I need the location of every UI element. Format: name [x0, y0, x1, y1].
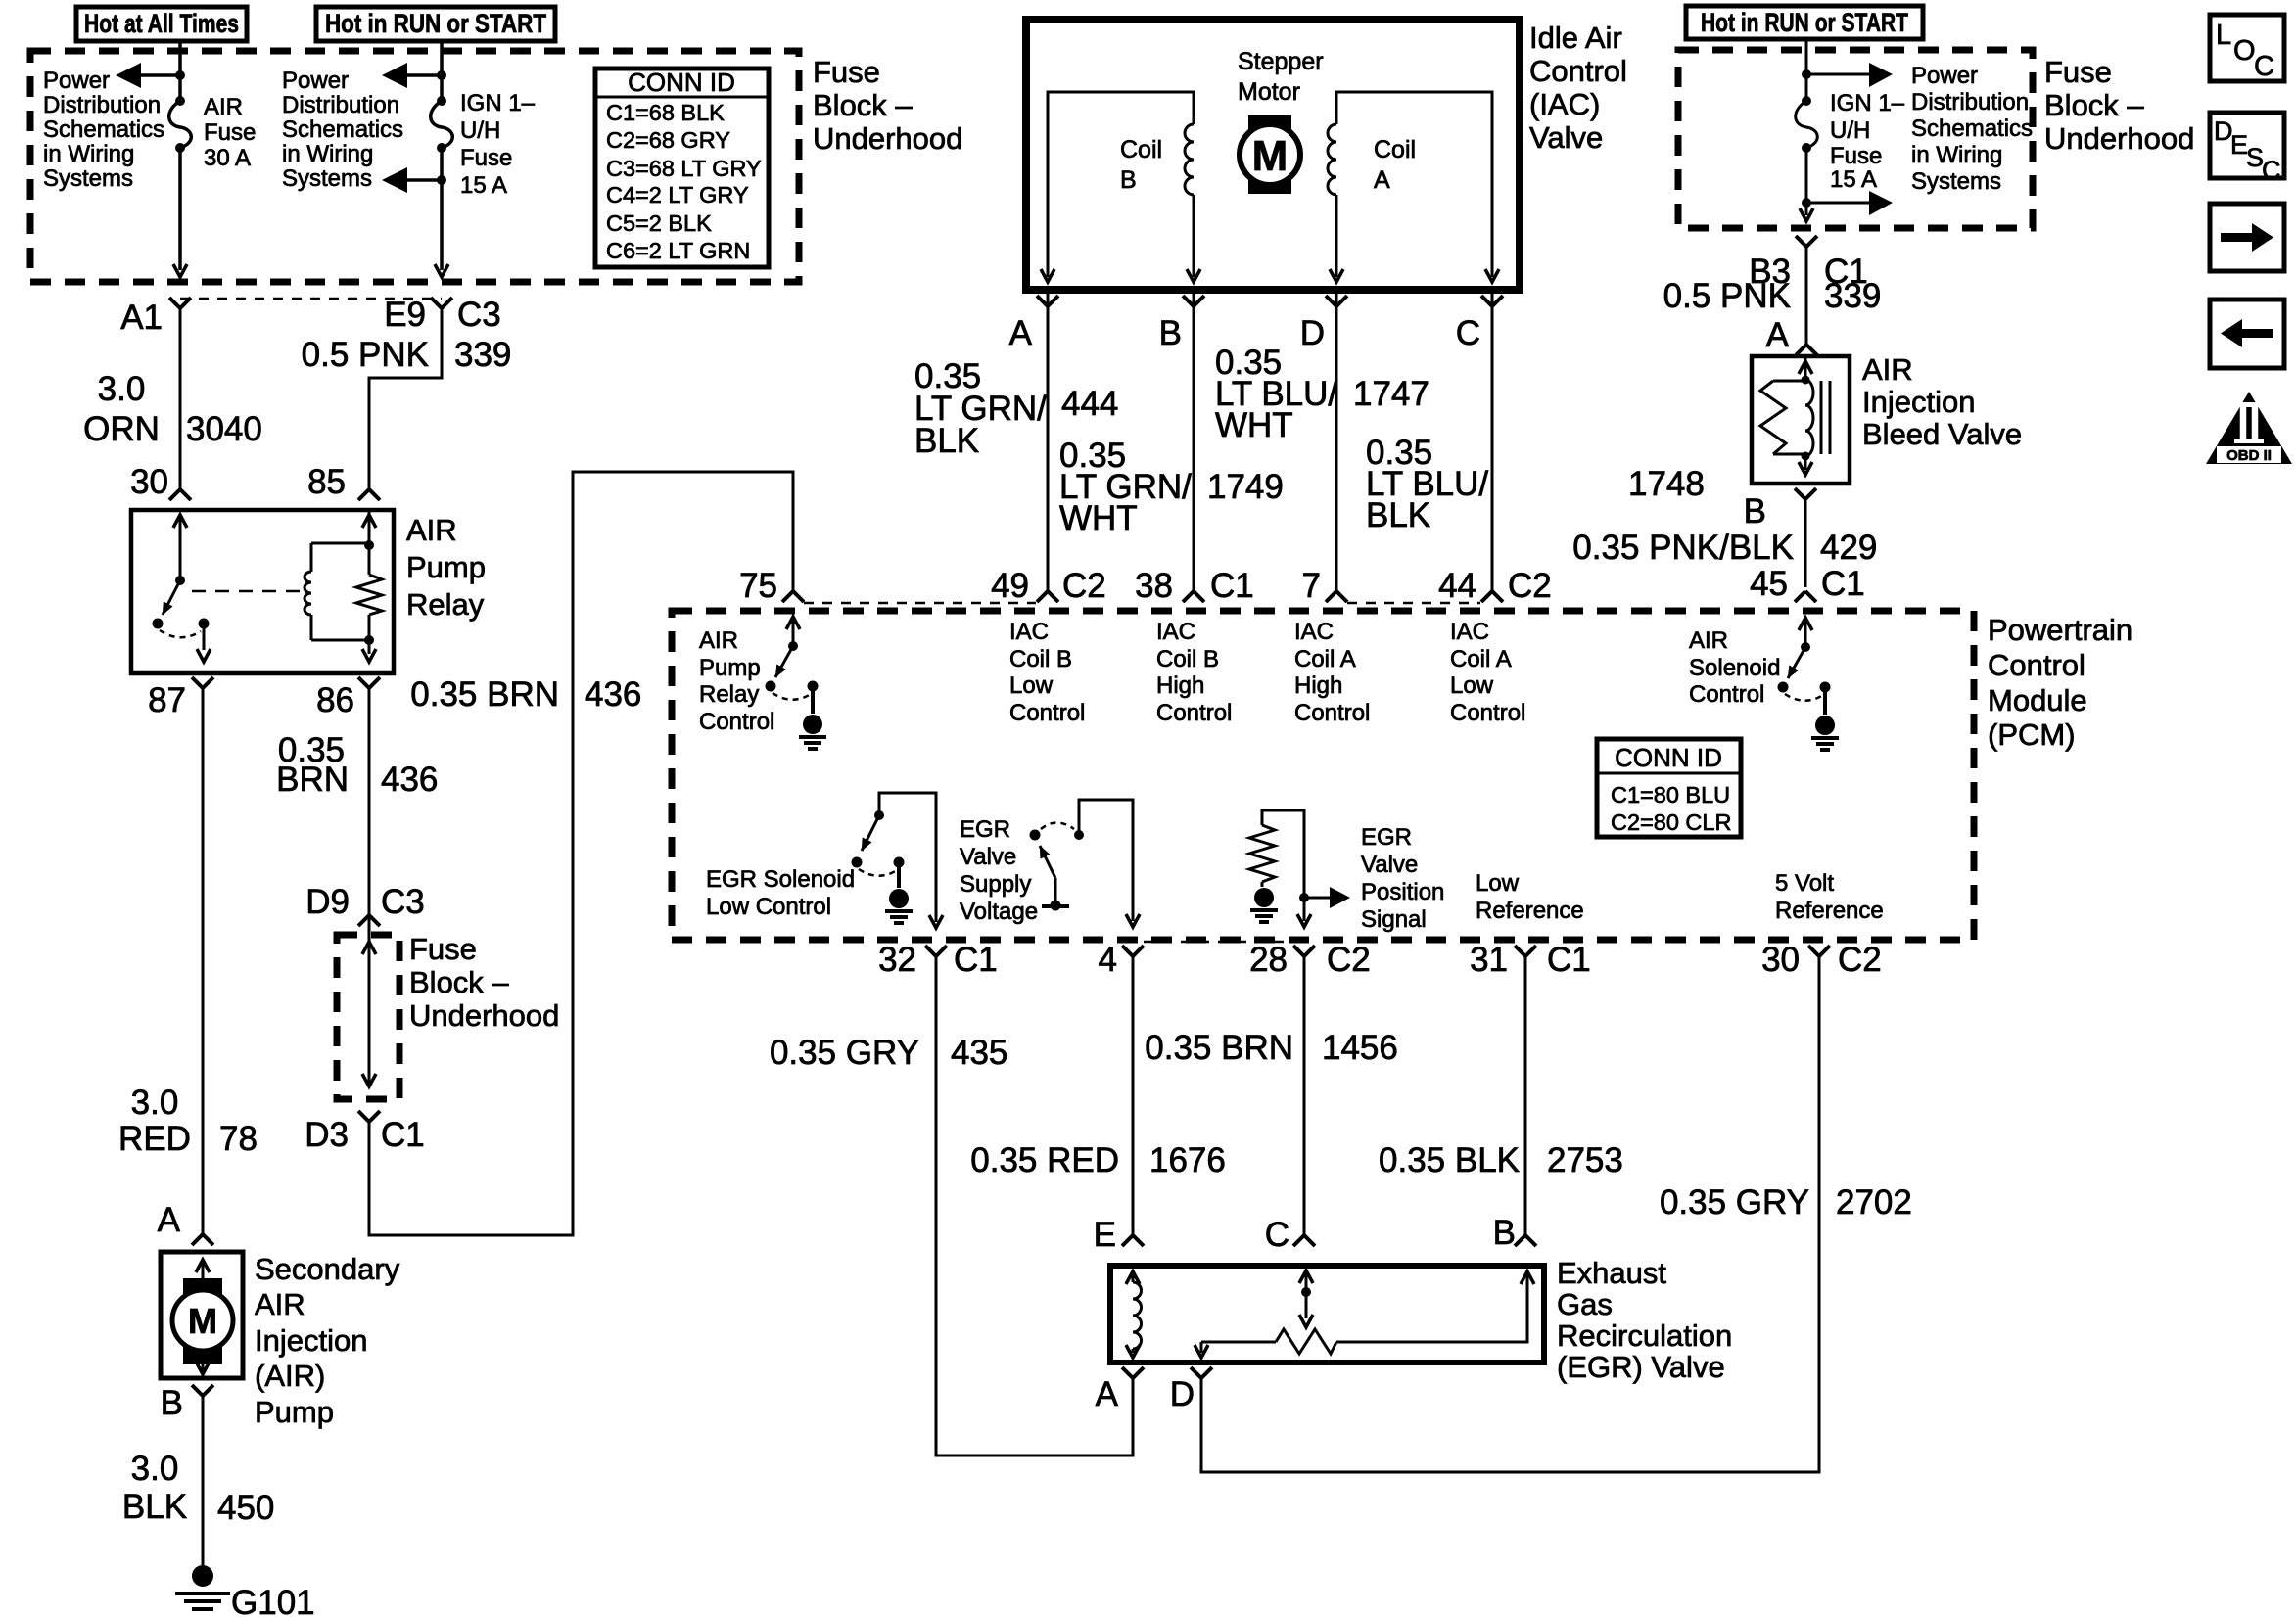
- svg-text:C2: C2: [1508, 567, 1552, 605]
- svg-text:(IAC): (IAC): [1529, 87, 1600, 121]
- svg-text:Control: Control: [1156, 700, 1232, 726]
- svg-text:45: 45: [1750, 565, 1788, 603]
- svg-text:Fuse: Fuse: [409, 932, 477, 966]
- svg-text:B: B: [1493, 1214, 1516, 1252]
- svg-text:Pump: Pump: [406, 550, 486, 584]
- svg-text:C4=2 LT GRY: C4=2 LT GRY: [606, 182, 749, 208]
- svg-text:Hot at All Times: Hot at All Times: [84, 9, 239, 38]
- svg-text:44: 44: [1438, 567, 1476, 605]
- svg-text:D: D: [1170, 1375, 1195, 1413]
- svg-text:Systems: Systems: [43, 165, 133, 192]
- svg-text:1749: 1749: [1207, 468, 1284, 506]
- svg-text:EGR: EGR: [960, 816, 1010, 843]
- svg-text:CONN ID: CONN ID: [628, 68, 735, 97]
- svg-text:IAC: IAC: [1009, 619, 1049, 645]
- svg-text:28: 28: [1249, 941, 1288, 979]
- svg-text:435: 435: [951, 1034, 1007, 1072]
- svg-text:B: B: [1159, 314, 1182, 352]
- svg-text:Gas: Gas: [1557, 1287, 1613, 1321]
- svg-text:AIR: AIR: [406, 513, 457, 547]
- svg-text:M: M: [1252, 132, 1289, 180]
- svg-text:C1: C1: [1821, 565, 1865, 603]
- svg-text:C1=68 BLK: C1=68 BLK: [606, 100, 725, 125]
- svg-text:Power: Power: [1911, 63, 1978, 89]
- svg-text:1456: 1456: [1322, 1029, 1398, 1067]
- svg-text:Coil A: Coil A: [1450, 646, 1512, 672]
- svg-text:Valve: Valve: [960, 844, 1016, 870]
- svg-text:Bleed Valve: Bleed Valve: [1862, 417, 2022, 451]
- svg-text:WHT: WHT: [1059, 499, 1138, 537]
- svg-text:A: A: [1096, 1375, 1119, 1413]
- svg-text:Hot in RUN or START: Hot in RUN or START: [325, 9, 546, 38]
- svg-text:B: B: [1744, 492, 1766, 531]
- svg-text:75: 75: [739, 567, 777, 605]
- svg-text:Control: Control: [1294, 700, 1370, 726]
- svg-text:Supply: Supply: [960, 871, 1031, 898]
- svg-text:Underhood: Underhood: [2044, 121, 2194, 156]
- svg-text:Relay: Relay: [406, 587, 485, 622]
- svg-text:5 Volt: 5 Volt: [1775, 870, 1834, 897]
- svg-text:C1: C1: [381, 1116, 425, 1154]
- svg-text:3.0: 3.0: [98, 370, 146, 408]
- svg-text:Signal: Signal: [1361, 906, 1427, 933]
- svg-text:4: 4: [1099, 941, 1117, 979]
- svg-text:0.35 BRN: 0.35 BRN: [1145, 1029, 1293, 1067]
- svg-text:Exhaust: Exhaust: [1557, 1256, 1666, 1290]
- svg-text:0.35 GRY: 0.35 GRY: [1660, 1183, 1809, 1222]
- svg-text:Control: Control: [1988, 648, 2085, 682]
- svg-text:Block –: Block –: [2044, 88, 2144, 122]
- svg-text:Fuse: Fuse: [2044, 55, 2112, 89]
- svg-text:Schematics: Schematics: [43, 116, 164, 143]
- svg-text:436: 436: [381, 761, 438, 799]
- svg-text:Reference: Reference: [1476, 898, 1584, 924]
- svg-text:30: 30: [1761, 941, 1800, 979]
- svg-text:38: 38: [1135, 567, 1173, 605]
- svg-text:O: O: [2233, 35, 2256, 67]
- svg-text:AIR: AIR: [1689, 627, 1728, 654]
- svg-text:Fuse: Fuse: [813, 55, 880, 89]
- svg-text:C2: C2: [1327, 941, 1371, 979]
- svg-text:Module: Module: [1988, 683, 2087, 717]
- svg-text:C1: C1: [954, 941, 998, 979]
- svg-text:Fuse: Fuse: [204, 119, 256, 146]
- svg-text:A: A: [1374, 166, 1390, 194]
- svg-text:Fuse: Fuse: [460, 145, 512, 171]
- svg-text:in Wiring: in Wiring: [1911, 142, 2002, 168]
- svg-text:High: High: [1294, 672, 1342, 699]
- svg-text:C: C: [2262, 156, 2281, 185]
- svg-text:Block –: Block –: [813, 88, 913, 122]
- svg-text:RED: RED: [118, 1120, 191, 1158]
- svg-text:1748: 1748: [1628, 465, 1705, 503]
- svg-text:WHT: WHT: [1215, 406, 1293, 444]
- svg-text:Systems: Systems: [282, 165, 372, 192]
- svg-text:A1: A1: [120, 299, 163, 337]
- svg-text:Underhood: Underhood: [813, 121, 962, 156]
- svg-text:Solenoid: Solenoid: [1689, 655, 1780, 681]
- svg-text:15 A: 15 A: [460, 172, 507, 199]
- svg-text:3040: 3040: [186, 410, 262, 448]
- svg-text:429: 429: [1820, 529, 1877, 567]
- svg-text:Relay: Relay: [699, 681, 759, 708]
- svg-text:3.0: 3.0: [131, 1450, 179, 1488]
- svg-text:IAC: IAC: [1450, 619, 1489, 645]
- svg-text:D: D: [1300, 314, 1325, 352]
- svg-text:D9: D9: [305, 883, 350, 921]
- svg-text:Distribution: Distribution: [43, 92, 161, 118]
- svg-text:Hot in RUN or START: Hot in RUN or START: [1701, 8, 1908, 37]
- svg-text:AIR: AIR: [255, 1287, 305, 1321]
- svg-text:Low: Low: [1476, 870, 1520, 897]
- svg-text:Valve: Valve: [1529, 120, 1603, 155]
- svg-text:C5=2 BLK: C5=2 BLK: [606, 210, 712, 236]
- svg-text:C: C: [1265, 1216, 1289, 1254]
- svg-text:49: 49: [991, 567, 1029, 605]
- svg-text:E9: E9: [384, 296, 426, 334]
- svg-text:IGN 1–: IGN 1–: [460, 90, 536, 116]
- svg-text:C: C: [1456, 314, 1480, 352]
- svg-text:339: 339: [1824, 277, 1881, 315]
- svg-text:U/H: U/H: [1830, 117, 1870, 144]
- svg-text:Power: Power: [282, 68, 349, 94]
- svg-text:Underhood: Underhood: [409, 998, 559, 1033]
- svg-text:Injection: Injection: [1862, 385, 1975, 419]
- svg-text:C2=68 GRY: C2=68 GRY: [606, 127, 730, 153]
- svg-text:Systems: Systems: [1911, 168, 2001, 195]
- svg-text:Voltage: Voltage: [960, 899, 1038, 925]
- svg-text:IAC: IAC: [1156, 619, 1195, 645]
- svg-text:86: 86: [316, 681, 354, 719]
- svg-text:IGN 1–: IGN 1–: [1830, 90, 1905, 116]
- svg-text:Coil: Coil: [1120, 136, 1162, 163]
- svg-text:BLK: BLK: [1366, 496, 1430, 534]
- svg-text:CONN ID: CONN ID: [1615, 743, 1722, 772]
- svg-text:Control: Control: [1529, 54, 1627, 88]
- svg-text:C2: C2: [1838, 941, 1882, 979]
- svg-text:15 A: 15 A: [1830, 166, 1877, 193]
- svg-text:Idle Air: Idle Air: [1529, 21, 1622, 55]
- svg-text:Position: Position: [1361, 879, 1444, 905]
- svg-text:339: 339: [454, 336, 511, 374]
- svg-text:Injection: Injection: [255, 1323, 367, 1358]
- svg-text:AIR: AIR: [1862, 352, 1913, 387]
- svg-text:ORN: ORN: [83, 410, 160, 448]
- svg-text:Control: Control: [699, 709, 774, 735]
- svg-text:Fuse: Fuse: [1830, 143, 1882, 169]
- svg-text:Reference: Reference: [1775, 898, 1884, 924]
- svg-text:Schematics: Schematics: [282, 116, 403, 143]
- svg-text:Control: Control: [1689, 681, 1764, 708]
- svg-text:Motor: Motor: [1238, 78, 1300, 106]
- svg-text:C3=68 LT GRY: C3=68 LT GRY: [606, 156, 762, 181]
- svg-text:C1=80 BLU: C1=80 BLU: [1611, 782, 1730, 808]
- svg-text:M: M: [188, 1301, 217, 1341]
- svg-text:3.0: 3.0: [131, 1084, 179, 1122]
- svg-text:EGR: EGR: [1361, 824, 1412, 851]
- svg-text:B: B: [1120, 166, 1137, 194]
- svg-text:436: 436: [585, 675, 641, 714]
- svg-text:A: A: [158, 1201, 181, 1239]
- svg-text:Low: Low: [1450, 672, 1494, 699]
- svg-text:(AIR): (AIR): [255, 1359, 325, 1393]
- svg-text:Schematics: Schematics: [1911, 115, 2033, 142]
- svg-text:78: 78: [219, 1120, 258, 1158]
- svg-text:0.35 GRY: 0.35 GRY: [770, 1034, 919, 1072]
- svg-text:Distribution: Distribution: [1911, 89, 2029, 115]
- svg-text:Pump: Pump: [255, 1395, 334, 1429]
- svg-text:Coil B: Coil B: [1156, 646, 1219, 672]
- svg-text:Secondary: Secondary: [255, 1252, 400, 1286]
- svg-text:C2: C2: [1062, 567, 1106, 605]
- svg-text:BLK: BLK: [914, 422, 979, 460]
- svg-text:Powertrain: Powertrain: [1988, 613, 2132, 647]
- svg-text:AIR: AIR: [204, 94, 243, 120]
- svg-text:Control: Control: [1450, 700, 1525, 726]
- svg-text:Block –: Block –: [409, 965, 509, 999]
- svg-text:32: 32: [878, 941, 916, 979]
- svg-text:Power: Power: [43, 68, 110, 94]
- svg-text:C2=80 CLR: C2=80 CLR: [1611, 809, 1731, 835]
- svg-text:Low: Low: [1009, 672, 1054, 699]
- svg-text:1676: 1676: [1149, 1141, 1226, 1179]
- svg-text:in Wiring: in Wiring: [43, 141, 134, 167]
- svg-text:85: 85: [307, 463, 346, 501]
- svg-text:E: E: [1094, 1216, 1116, 1254]
- svg-text:C: C: [2254, 51, 2274, 82]
- svg-text:444: 444: [1061, 385, 1118, 423]
- svg-text:C3: C3: [381, 883, 425, 921]
- svg-text:C1: C1: [1547, 941, 1591, 979]
- svg-text:AIR: AIR: [699, 627, 738, 654]
- svg-text:0.35 BRN: 0.35 BRN: [410, 675, 559, 714]
- svg-text:A: A: [1766, 316, 1790, 354]
- svg-text:87: 87: [148, 681, 186, 719]
- svg-text:30 A: 30 A: [204, 145, 251, 171]
- svg-text:(PCM): (PCM): [1988, 717, 2076, 752]
- svg-text:C3: C3: [457, 296, 501, 334]
- svg-text:U/H: U/H: [460, 117, 500, 144]
- svg-text:BLK: BLK: [122, 1488, 187, 1526]
- svg-text:Pump: Pump: [699, 655, 761, 681]
- svg-text:IAC: IAC: [1294, 619, 1334, 645]
- svg-text:31: 31: [1470, 941, 1508, 979]
- svg-text:OBD II: OBD II: [2226, 447, 2272, 464]
- svg-text:Coil: Coil: [1374, 136, 1416, 163]
- svg-text:B: B: [161, 1384, 183, 1422]
- svg-text:Coil B: Coil B: [1009, 646, 1072, 672]
- svg-text:450: 450: [217, 1489, 274, 1527]
- svg-text:0.5 PNK: 0.5 PNK: [1663, 277, 1791, 315]
- svg-text:C6=2 LT GRN: C6=2 LT GRN: [606, 238, 750, 263]
- svg-text:D3: D3: [305, 1116, 349, 1154]
- svg-text:Recirculation: Recirculation: [1557, 1318, 1732, 1353]
- svg-text:2702: 2702: [1836, 1183, 1912, 1222]
- svg-text:(EGR) Valve: (EGR) Valve: [1557, 1350, 1725, 1384]
- svg-text:Low Control: Low Control: [706, 894, 831, 920]
- svg-text:Valve: Valve: [1361, 852, 1418, 878]
- svg-text:L: L: [2216, 20, 2231, 51]
- svg-text:in Wiring: in Wiring: [282, 141, 373, 167]
- svg-text:Control: Control: [1009, 700, 1085, 726]
- svg-text:C1: C1: [1210, 567, 1254, 605]
- svg-text:30: 30: [130, 463, 168, 501]
- svg-text:High: High: [1156, 672, 1204, 699]
- svg-text:0.35 RED: 0.35 RED: [970, 1141, 1119, 1179]
- svg-text:7: 7: [1302, 567, 1321, 605]
- svg-text:0.35 BLK: 0.35 BLK: [1379, 1141, 1520, 1179]
- svg-text:A: A: [1009, 314, 1033, 352]
- svg-text:2753: 2753: [1547, 1141, 1623, 1179]
- svg-text:Distribution: Distribution: [282, 92, 399, 118]
- svg-text:EGR Solenoid: EGR Solenoid: [706, 866, 855, 893]
- svg-text:1747: 1747: [1353, 375, 1429, 413]
- svg-text:Stepper: Stepper: [1238, 48, 1324, 75]
- svg-text:0.35 PNK/BLK: 0.35 PNK/BLK: [1572, 529, 1794, 567]
- svg-text:Coil A: Coil A: [1294, 646, 1356, 672]
- svg-text:G101: G101: [231, 1584, 315, 1617]
- svg-text:0.5 PNK: 0.5 PNK: [302, 336, 429, 374]
- svg-text:BRN: BRN: [276, 761, 349, 799]
